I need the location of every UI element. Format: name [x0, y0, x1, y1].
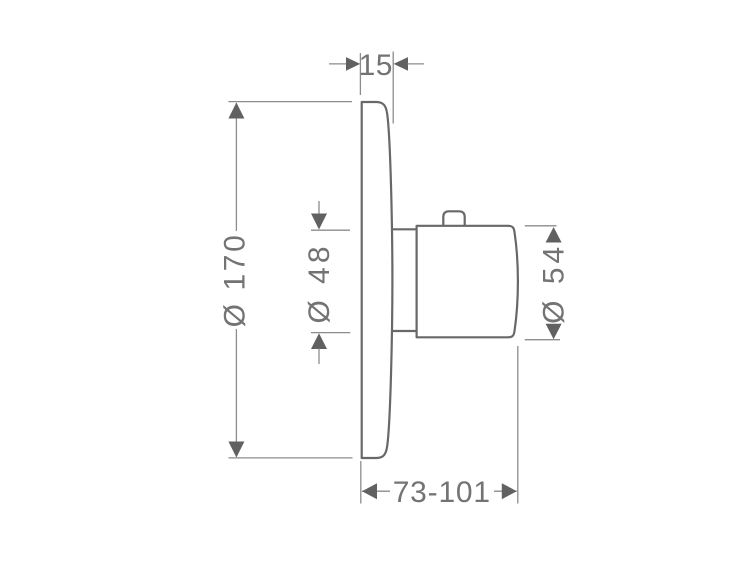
dim 73-101: left extension line — [360, 461, 362, 504]
dim Ø48: bottom tick — [311, 332, 350, 334]
dim Ø170: bottom arrow — [228, 442, 244, 458]
dim 73-101: dimension line — [362, 490, 517, 492]
knob top tab — [443, 211, 464, 227]
escutcheon plate (side view) — [362, 102, 393, 458]
dim 73-101: value text — [390, 476, 494, 509]
dim 73-101: right arrow — [502, 483, 517, 499]
svg-text:Ø 54: Ø 54 — [538, 243, 571, 324]
svg-text:Ø 48: Ø 48 — [303, 242, 336, 323]
dim Ø170: top arrow — [228, 103, 244, 119]
dim Ø170: value text — [218, 231, 251, 329]
dim Ø48: bottom arrow — [311, 333, 327, 364]
dim Ø54: top tick — [525, 225, 557, 227]
dim Ø48: top tick — [311, 229, 350, 231]
dim 73-101: left arrow — [362, 483, 377, 499]
dim Ø48: value text — [303, 242, 336, 323]
dim Ø170: vertical dimension line — [235, 103, 237, 457]
dim Ø54: up arrow — [546, 227, 562, 243]
svg-text:73-101: 73-101 — [393, 476, 491, 509]
dim 15: right arrow — [394, 57, 424, 71]
sleeve bottom line — [392, 330, 417, 332]
dim 15: value text — [359, 49, 393, 82]
dim Ø170: top extension line — [228, 101, 352, 103]
dim 15: right extension line — [392, 52, 394, 124]
dim 73-101: right extension line — [517, 346, 519, 504]
dim Ø54: bottom tick — [525, 339, 560, 341]
svg-text:15: 15 — [359, 49, 393, 82]
dim Ø170: bottom extension line — [228, 457, 352, 459]
dim 15: left extension line — [359, 53, 361, 95]
thermostat knob body — [417, 226, 518, 337]
dim Ø54: value text — [538, 243, 571, 324]
dim Ø54: down arrow — [546, 324, 562, 340]
dim Ø48: top arrow — [311, 201, 327, 230]
svg-text:Ø 170: Ø 170 — [218, 233, 251, 328]
dim 15: left arrow — [329, 57, 360, 71]
sleeve top line — [392, 228, 417, 230]
